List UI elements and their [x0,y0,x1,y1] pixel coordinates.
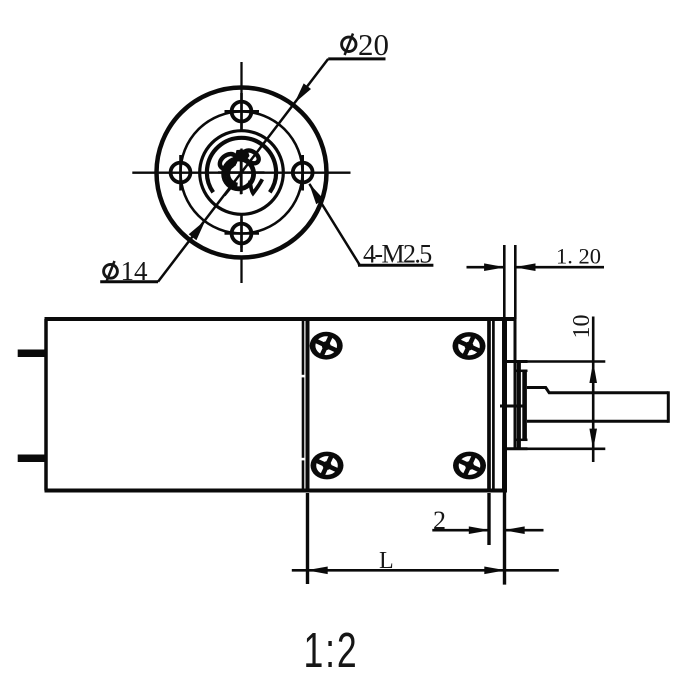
svg-text:10: 10 [569,315,595,339]
underline Ø20 [328,57,385,60]
screw hole top crosshair [225,93,260,130]
hub step top line [516,370,527,373]
gearbox screw top-left [310,332,343,360]
body top edge [45,317,516,321]
screw hole bottom crosshair [225,216,260,253]
svg-text:L: L [379,548,394,574]
shaft profile inner C thickening [228,163,238,185]
shaft boss top line [527,388,668,393]
leader line Ø20 to Ø14 [158,59,328,282]
motor gearbox joint line [302,319,305,491]
arrowhead L right [484,567,505,575]
screw hole right crosshair [301,155,304,191]
hub step bar B [522,370,527,441]
arrowhead L left [307,567,328,575]
vertical centerline top view [240,62,242,283]
shaft bottom line [527,420,668,423]
svg-text:20: 20 [358,27,389,62]
dimension line 2 left part [432,529,489,532]
flange right edge [514,319,517,450]
joint line break marks [302,375,305,378]
extension line 10 top [528,360,606,363]
svg-text:1:2: 1:2 [304,623,359,678]
screw hole bottom [232,224,252,244]
underline Ø14 [100,280,158,283]
gearbox right edge [487,319,491,491]
extension line 10 bottom [528,447,606,450]
svg-text:4-M2.5: 4-M2.5 [363,240,431,269]
terminal tab upper [18,350,46,358]
screw hole left [171,163,191,183]
screw hole top [232,102,252,122]
shaft axis stub [500,405,523,408]
extension line 1.20 left [503,245,506,319]
extension line 2 right / L right [503,491,506,585]
underline 4-M2.5 [358,264,433,267]
screw hole right [293,163,313,183]
hub step bar A [517,362,521,449]
arrowhead 1.20 left-pointing [514,263,535,271]
circle inner ring A [200,131,284,215]
body bottom edge [45,489,508,493]
shaft profile circle [224,159,254,189]
extension line L left [306,493,309,584]
dimension line 1.20 right part [515,266,604,269]
arc inner ring B (open at bottom) [207,138,276,193]
profile crosshair vertical [240,150,242,195]
dimension line L [292,569,559,572]
arrowhead Ø14 [189,220,206,240]
arrowhead 2 right-pointing [469,526,490,534]
bolt circle Ø14 [181,112,303,234]
svg-text:14: 14 [121,256,149,286]
svg-text:2: 2 [433,506,446,535]
hub top line [503,360,528,363]
gearbox screw top-right [453,332,486,360]
flange left edge [502,319,507,491]
arrowhead Ø20 [294,83,311,103]
label Ø14 [104,256,148,286]
dimension line 10 [592,317,595,463]
hub step bottom line [516,439,527,442]
leader 4-M2.5 [309,184,359,265]
terminal tab lower [18,455,46,463]
gearbox screw bottom-right [453,452,486,480]
motor body outline [44,319,48,491]
profile crosshair horizontal [218,171,265,173]
screw hole left crosshair [179,155,182,191]
dimension line 1.20 left part [467,266,505,269]
shaft profile right ear [241,148,261,166]
svg-text:1. 20: 1. 20 [556,244,601,269]
hub bottom line [503,447,528,450]
arrowhead 1.20 right-pointing [484,263,505,271]
gearbox left edge [306,319,310,491]
horizontal centerline top view [132,172,350,174]
arrowhead 10 up [589,362,597,383]
shaft profile lower-left tail [225,184,234,196]
shaft profile collar between ears [235,150,250,162]
shaft end [667,391,670,423]
extension line 2 left [487,493,490,545]
outer circle Ø20 [157,88,327,258]
extension line 1.20 right [514,245,517,319]
arrowhead 10 down [589,429,597,450]
arrowhead 2 left-pointing [504,526,525,534]
shaft profile right fang [250,179,262,193]
gearbox screw bottom-left [311,452,344,480]
gearbox face plate line [492,319,495,491]
arrowhead 4-M2.5 [309,183,324,204]
dimension line 2 right part [505,529,544,532]
label Ø20 [342,27,389,62]
shaft profile left ear [217,151,239,172]
